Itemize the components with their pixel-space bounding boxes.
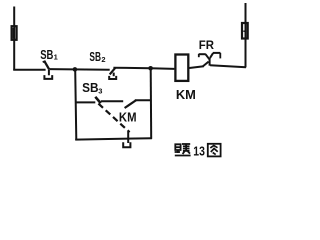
svg-text:13: 13 (193, 144, 205, 159)
svg-text:2: 2 (101, 55, 105, 64)
svg-text:SB: SB (82, 81, 98, 95)
svg-text:KM: KM (176, 88, 196, 102)
svg-text:KM: KM (119, 110, 137, 125)
svg-text:SB: SB (89, 50, 101, 64)
svg-text:3: 3 (98, 87, 102, 96)
svg-text:FR: FR (199, 38, 215, 52)
svg-text:1: 1 (54, 53, 58, 62)
svg-text:SB: SB (40, 48, 53, 62)
